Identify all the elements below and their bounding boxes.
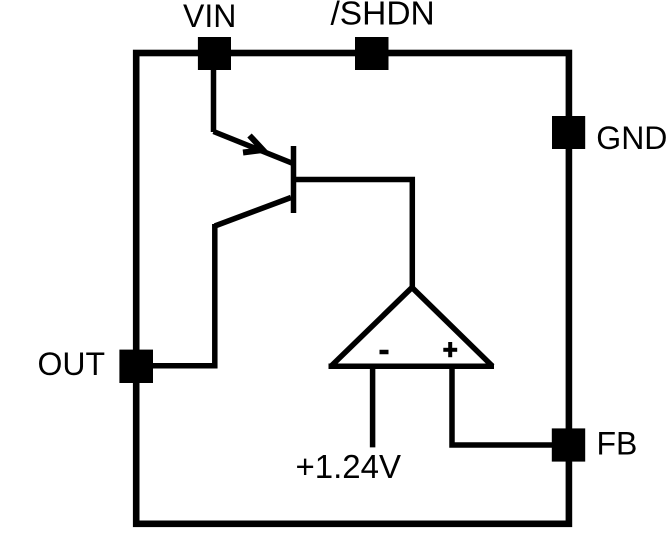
emitter arrowhead (points into base: PNP) (243, 136, 263, 153)
pin VIN (198, 37, 231, 70)
base bar (291, 146, 297, 213)
svg-text:OUT: OUT (38, 346, 106, 382)
emitter diagonal (214, 132, 294, 164)
wire collector to OUT pin (153, 224, 215, 366)
pin OUT (119, 350, 153, 383)
op-amp U1 error amplifier (329, 288, 495, 367)
transistor Q1 PNP pass transistor (214, 132, 294, 227)
svg-text:GND: GND (596, 120, 667, 156)
pin FB (552, 428, 585, 461)
pin GND (552, 116, 585, 149)
op-amp inverting input symbol (-) (380, 350, 389, 355)
pin /SHDN (355, 37, 389, 70)
op-amp noninverting input symbol (+) (443, 342, 457, 357)
collector diagonal (215, 198, 291, 227)
svg-text:VIN: VIN (183, 0, 236, 34)
wire base to op-amp output (296, 180, 412, 291)
wire noninverting input to FB pin (452, 367, 552, 445)
svg-text:/SHDN: /SHDN (331, 0, 435, 33)
svg-text:+1.24V: +1.24V (296, 448, 402, 485)
svg-text:FB: FB (597, 426, 638, 462)
wire inverting input to 1.24V reference (370, 367, 376, 447)
IC body outline (136, 53, 569, 524)
wire VIN pin to transistor emitter (211, 69, 217, 132)
